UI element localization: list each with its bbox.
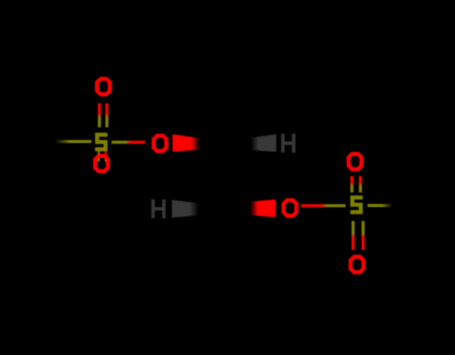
atom H2 (bottom hydrogen) [151, 199, 165, 218]
atom O2 (left bottom oxygen) [93, 154, 110, 173]
double bond S2=O6 [352, 221, 355, 250]
atom O1 (left top oxygen) [95, 77, 112, 96]
node C3 (bottom stereocenter, carbon: invisible on black) [0, 0, 1, 1]
atom O5 (right top oxygen) [347, 152, 364, 171]
atom S2 (right sulfur) [350, 196, 362, 215]
atom S1 (left sulfur) [95, 133, 107, 152]
atom H1 (top hydrogen) [281, 134, 295, 153]
double bond S1=O1 [98, 103, 101, 127]
wedge bond C3-O4 (red half of bold wedge) [250, 199, 276, 217]
bond S1-O3 [112, 141, 146, 144]
wedge bond O3-C2 (red half of bold wedge) [173, 134, 200, 152]
atom O3 (left ester oxygen) [152, 134, 169, 153]
bond O4-S2 [301, 204, 346, 207]
bond S2-CH3 (right methyl) [368, 204, 393, 207]
double bond S2=O5 [350, 176, 353, 193]
atom O4 (right ester oxygen) [282, 198, 299, 217]
double bond S1=O2 (short, mostly hidden behind O2) [98, 151, 100, 162]
node C2 (top stereocenter, carbon: invisible on black) [0, 0, 1, 1]
wedge bond C2-H1 (gray half of bold wedge) [251, 134, 277, 152]
bond CH3-S1 (left methyl) [55, 140, 92, 143]
atom O6 (right bottom oxygen) [349, 255, 366, 274]
wedge bond C3-H2 (gray half of bold wedge) [172, 200, 199, 218]
